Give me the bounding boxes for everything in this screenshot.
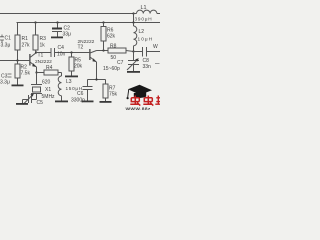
node top-rail/L1 junction <box>132 12 134 14</box>
transistor T1 <box>29 54 30 66</box>
wire emitter bus <box>88 79 106 81</box>
svg-text:T1: T1 <box>38 53 44 59</box>
resistor R2 <box>17 61 19 65</box>
node R6 top <box>102 21 104 23</box>
svg-text:R8: R8 <box>110 43 117 49</box>
svg-text:20k: 20k <box>74 64 83 70</box>
transistor T2 <box>89 49 90 60</box>
svg-text:10μH: 10μH <box>138 37 154 42</box>
capacitor C1 <box>0 35 4 43</box>
svg-text:L2: L2 <box>139 29 145 35</box>
svg-text:C4: C4 <box>58 45 65 51</box>
svg-text:T2: T2 <box>78 45 84 51</box>
svg-text:C5: C5 <box>37 100 44 106</box>
logo partial character right edge <box>155 96 160 105</box>
capacitor C3 <box>8 74 12 77</box>
node R5 top <box>70 51 72 53</box>
svg-text:7.5k: 7.5k <box>21 71 31 77</box>
crystal X1 <box>36 73 38 85</box>
svg-text:50: 50 <box>111 55 117 61</box>
ground L3 <box>55 101 68 103</box>
svg-text:W: W <box>153 44 158 50</box>
wire top rail VCC <box>0 13 133 15</box>
node C2 top <box>56 21 58 23</box>
wire input base <box>0 60 29 62</box>
ground R2 <box>12 85 24 87</box>
wire rail1-rail2 vertical <box>133 14 135 23</box>
svg-text:3.3μ: 3.3μ <box>0 80 10 86</box>
svg-text:390μH: 390μH <box>135 16 153 21</box>
inductor L1 <box>134 10 161 13</box>
logo graduation cap <box>127 85 153 99</box>
svg-text:15~60p: 15~60p <box>103 66 120 72</box>
svg-text:C1: C1 <box>5 36 12 42</box>
node output L2/C7/C8 <box>132 50 134 52</box>
node T1 collector <box>35 51 37 53</box>
resistor R6 <box>103 23 105 27</box>
svg-text:33n: 33n <box>143 64 152 70</box>
node R6 bottom <box>102 49 104 51</box>
ground C5 <box>16 103 28 105</box>
resistor R7 <box>105 80 107 85</box>
node base/R1/R2 <box>16 59 18 61</box>
svg-text:X1: X1 <box>45 87 51 93</box>
svg-text:75k: 75k <box>109 92 118 98</box>
resistor R1 <box>17 23 19 36</box>
logo text 虫虫 red characters <box>130 96 153 106</box>
trimmer capacitor C5 <box>32 99 37 101</box>
svg-text:C6: C6 <box>77 91 84 97</box>
node emitter/C6/R7 <box>95 78 97 80</box>
ground R7 <box>100 101 112 103</box>
svg-text:27k: 27k <box>22 43 31 49</box>
wire collector to C4 <box>36 52 51 54</box>
wire output tick <box>155 63 160 65</box>
wire T1 emitter <box>36 67 38 73</box>
svg-text:R3: R3 <box>40 36 47 42</box>
inductor L2 <box>134 23 137 52</box>
capacitor C2 electrolytic <box>57 23 59 28</box>
capacitor C6 <box>87 80 89 87</box>
trimmer capacitor C7 <box>133 52 135 61</box>
svg-text:33μ: 33μ <box>63 32 72 38</box>
svg-text:3300p: 3300p <box>71 98 85 104</box>
inductor L3 <box>58 73 61 101</box>
ground R5 <box>65 76 78 78</box>
svg-text:R1: R1 <box>22 36 29 42</box>
resistor R4 <box>37 72 45 74</box>
svg-text:10n: 10n <box>57 51 66 57</box>
node R3 top <box>34 21 36 23</box>
svg-text:WWW.88z: WWW.88z <box>126 107 151 111</box>
node emitter/R4/X1 <box>35 71 37 73</box>
ground C6 <box>82 101 94 103</box>
capacitor C4 <box>51 48 55 57</box>
svg-text:620: 620 <box>42 80 51 86</box>
capacitor C8 <box>134 51 143 53</box>
svg-text:62k: 62k <box>107 34 116 40</box>
wire second rail <box>17 22 161 24</box>
wire T2 collector <box>97 50 109 52</box>
svg-text:L3: L3 <box>66 79 72 85</box>
svg-text:5MHz: 5MHz <box>42 94 56 100</box>
resistor R5 <box>71 53 73 58</box>
resistor R8 <box>108 48 126 53</box>
node L2 top <box>132 21 134 23</box>
svg-text:L1: L1 <box>141 5 147 11</box>
wire T2 emitter <box>96 62 98 80</box>
svg-text:1k: 1k <box>40 43 46 49</box>
ground C7 <box>127 71 140 73</box>
svg-text:R4: R4 <box>46 65 53 71</box>
resistor R3 <box>35 23 37 36</box>
ground C2 <box>51 37 63 39</box>
svg-text:3.3μ: 3.3μ <box>1 43 11 49</box>
